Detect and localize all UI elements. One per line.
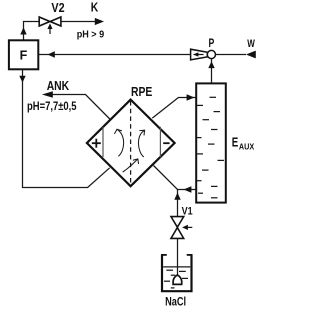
svg-text:P: P: [209, 38, 215, 50]
RPE anode plate: [102, 127, 104, 157]
arrowhead W inlet: [246, 51, 256, 59]
wire RPE to column top: [152, 98, 195, 119]
wire ANK outlet: [52, 95, 110, 120]
svg-text:ANK: ANK: [47, 79, 69, 93]
arrowhead up from V1: [174, 193, 180, 200]
tank liquid dashes: [164, 270, 188, 288]
wire main line W to F: [38, 54, 246, 56]
wire F to V2 riser: [24, 22, 40, 41]
wire V1 to NaCl tank: [177, 238, 179, 275]
wire F drain down-left: [23, 69, 110, 187]
svg-text:V2: V2: [51, 1, 64, 15]
svg-text:E: E: [232, 135, 239, 150]
circulation arrow left: [114, 129, 123, 156]
svg-text:NaCl: NaCl: [165, 294, 186, 308]
pump P cone: [191, 49, 208, 60]
tank liquid level: [163, 266, 190, 268]
arrowhead into column top: [187, 94, 195, 100]
wire junction down to V1: [177, 190, 179, 217]
valve V1: [171, 217, 184, 239]
flow meter F: [9, 40, 38, 69]
svg-text:RPE: RPE: [131, 84, 153, 99]
wire column to pump P: [211, 59, 213, 84]
pump internal arrow: [193, 52, 199, 56]
circulation arrow right: [138, 130, 144, 157]
plus polarity mark: [92, 139, 101, 148]
column packing dashes: [197, 97, 224, 198]
electrolyzer RPE body: [87, 100, 175, 187]
valve V1 stem arrow: [187, 226, 192, 228]
svg-text:pH=7,7±0,5: pH=7,7±0,5: [27, 101, 77, 113]
arrowhead up to V2: [20, 27, 26, 34]
arrowhead toward RPE: [184, 186, 192, 192]
minus polarity mark: [163, 142, 169, 144]
svg-text:V1: V1: [182, 205, 193, 217]
valve V2 stem arrow: [49, 28, 51, 35]
svg-text:W: W: [247, 38, 255, 50]
arrowhead K outlet: [95, 18, 104, 25]
auxiliary column E_AUX: [196, 83, 226, 202]
arrowhead up to pump: [208, 61, 214, 68]
svg-text:pH > 9: pH > 9: [77, 28, 105, 40]
suction strainer: [173, 275, 182, 284]
circulation arrow bottom: [123, 159, 139, 172]
wire V2 to K: [61, 21, 96, 23]
pump P circle: [207, 50, 215, 58]
arrowhead ANK: [42, 91, 53, 97]
RPE cathode plate: [159, 127, 161, 157]
svg-text:AUX: AUX: [239, 143, 255, 152]
wire column bottom to junction: [154, 166, 196, 190]
RPE membrane dashed: [130, 101, 132, 185]
svg-text:K: K: [91, 0, 99, 14]
valve V2: [39, 17, 61, 26]
NaCl tank: [162, 255, 192, 291]
arrowhead down from F: [19, 76, 25, 83]
svg-text:F: F: [20, 48, 28, 62]
arrowhead into F: [48, 51, 55, 57]
